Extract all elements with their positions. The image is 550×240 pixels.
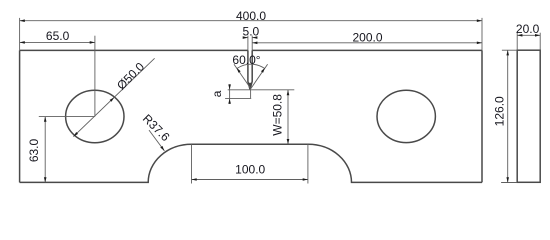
leader R37.6 arrow [160,146,164,151]
dim 5.0 extension left [247,36,249,51]
dim 5.0 arrow left [243,36,248,39]
svg-text:5.0: 5.0 [243,24,260,38]
crack tip extension line (lower) [225,97,251,99]
dia 50 arrow lower-left [73,132,78,137]
dim 65.0 line [20,41,95,43]
dim 400.0 line [20,20,482,22]
svg-text:60.0°: 60.0° [232,53,260,67]
dim 65.0 arrow right [90,41,95,44]
angle 60 arrow left [237,68,241,73]
svg-text:W=50.8: W=50.8 [270,94,284,136]
side view rectangle [517,50,540,182]
dim 63.0 line [44,117,46,183]
dim 20.0 extension left [516,33,518,51]
dim 126.0 arrow bottom [506,177,509,182]
dim a arrow top [228,84,231,89]
dim 100.0 line [192,179,308,181]
leader dia 50.0 line [73,58,154,136]
svg-text:126.0: 126.0 [493,96,507,126]
dim 20.0 extension right [539,33,541,51]
svg-text:100.0: 100.0 [235,163,265,177]
dim W arrow top [287,90,290,95]
dim 200.0 arrow left [252,42,257,45]
dim 400.0 extension right [481,18,483,51]
dim 126.0 extension bottom [501,182,517,184]
notch tip extension line (upper, to W dim) [228,89,295,91]
dim 400.0 arrow right [477,19,482,22]
angle 60 arrow right [261,68,265,73]
dim 200.0 arrow right [477,42,482,45]
svg-text:65.0: 65.0 [46,29,70,43]
dim 5.0 arrow right [252,36,257,39]
part outline: right edge [481,50,483,182]
dim 20.0 arrow left [517,34,522,37]
svg-text:400.0: 400.0 [236,9,266,23]
leader R37.6 line [149,130,164,151]
V-notch left side [248,50,250,89]
dim 400.0 arrow left [20,19,25,22]
dim 100.0 arrow right [303,178,308,181]
angle 60 deg left flank [234,64,251,88]
angle 60 deg arc [237,64,264,68]
dim 126.0 line [507,50,509,182]
dim 65.0 extension (circle centerline up) [94,36,96,117]
dim 100.0 extension right [307,144,309,183]
dim 200.0 line [252,42,482,44]
part outline: top edge right of notch [252,49,482,51]
dim 5.0 line right outside [252,37,257,39]
hole right circle [377,90,435,142]
dim a line [229,84,231,104]
dim 63.0 extension (circle center to left) [39,116,95,118]
dim 400.0 extension left [19,18,21,51]
svg-text:a: a [210,90,224,97]
dim 63.0 arrow bottom [44,177,47,182]
svg-text:63.0: 63.0 [27,138,41,162]
part outline: left edge [19,50,21,182]
dia 50 arrow upper-right [110,97,115,102]
dim 65.0 arrow left [20,41,25,44]
hole left circle [66,90,124,142]
V-notch apex fill [248,83,252,90]
part outline: bottom edge with slot and fillets R37.6 [20,144,482,182]
dim 5.0 line left outside [243,37,248,39]
dim 126.0 extension top [502,49,517,51]
dim 63.0 arrow top [44,117,47,122]
angle 60 deg right flank [251,64,268,88]
dim 5.0 extension right [251,36,253,51]
dim 20.0 line [517,34,540,36]
dim 100.0 arrow left [192,178,197,181]
svg-text:200.0: 200.0 [352,31,382,45]
dim a arrow bottom [228,99,231,104]
dim W arrow bottom [287,139,290,144]
dim 100.0 extension left [191,144,193,183]
notch crack line [250,89,252,98]
V-notch right side [250,50,252,89]
dim 126.0 arrow top [506,50,509,55]
part outline: top edge left of notch [20,49,248,51]
dim 20.0 arrow right [535,34,540,37]
dim W=50.8 line [287,90,289,144]
svg-text:20.0: 20.0 [516,22,540,36]
